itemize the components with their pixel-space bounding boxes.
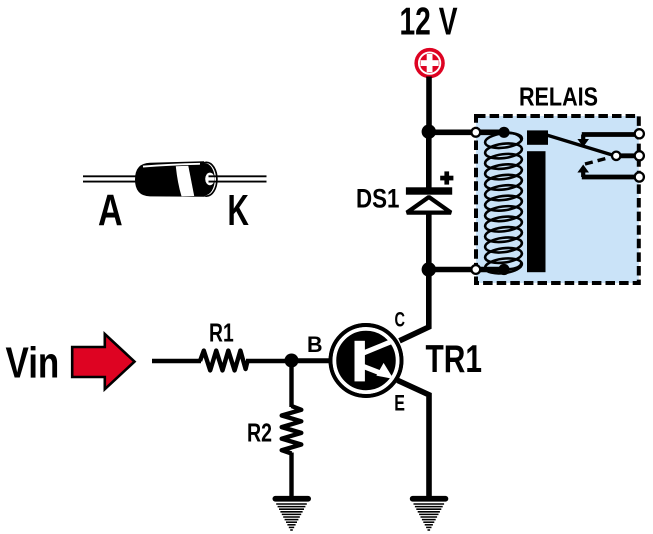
wire R1 to base — [246, 359, 336, 363]
physical diode drawing — [83, 161, 267, 197]
emitter arrow — [376, 363, 393, 379]
wire supply to node1 — [426, 77, 432, 135]
svg-text:Vin: Vin — [6, 339, 60, 388]
collector stroke inside — [361, 341, 394, 355]
transistor TR1 — [292, 323, 404, 398]
svg-text:TR1: TR1 — [426, 338, 483, 381]
DS1 plus polarity mark — [440, 171, 453, 184]
relay K1 box — [476, 116, 639, 283]
emitter stroke inside — [361, 366, 379, 373]
wire base — [292, 358, 341, 362]
wire node1 to DS1 — [426, 131, 432, 189]
relay armature block — [527, 130, 548, 144]
body circle — [329, 323, 404, 398]
wire input to R1 — [152, 359, 201, 363]
cathode lead double line — [209, 175, 267, 177]
wire emitter to ground — [398, 380, 430, 498]
relay common wire — [616, 153, 639, 158]
anode lead double line — [83, 175, 140, 177]
svg-text:C: C — [395, 306, 406, 331]
outer ring — [331, 325, 402, 396]
relay contact NO bottom — [577, 165, 639, 178]
relay arm alternate position dashed — [585, 157, 610, 164]
diode body — [135, 161, 204, 197]
svg-text:E: E — [394, 390, 405, 415]
svg-text:K: K — [228, 187, 250, 235]
diode DS1 — [406, 187, 452, 212]
supply +12V terminal — [414, 48, 444, 78]
cathode band — [176, 166, 194, 197]
wire DS1 to node2 — [426, 212, 432, 270]
svg-text:DS1: DS1 — [356, 184, 400, 214]
relay contact NC top — [577, 135, 639, 148]
svg-text:R1: R1 — [209, 318, 234, 348]
relay armature arm — [548, 135, 614, 155]
wire node to R2 — [289, 361, 293, 408]
relay terminal right bottom — [635, 172, 644, 181]
ground 2 — [410, 496, 449, 530]
wire node2 to collector — [400, 270, 429, 341]
wire node2 to relay coil bottom — [429, 267, 504, 273]
wire R2 to ground — [289, 453, 293, 499]
node junction dot bottom — [422, 262, 436, 276]
input arrow — [72, 334, 134, 389]
ground 1 — [273, 496, 312, 530]
svg-text:RELAIS: RELAIS — [519, 82, 598, 112]
relay terminal left top — [471, 128, 480, 137]
relay pivot contact — [612, 152, 620, 160]
node junction dot top — [422, 125, 436, 139]
end cap — [196, 162, 217, 196]
resistor R2 — [282, 406, 302, 454]
svg-text:12 V: 12 V — [400, 1, 458, 44]
relay coil terminal dot bottom — [498, 264, 509, 275]
svg-text:A: A — [98, 187, 123, 236]
relay terminal right middle — [635, 151, 644, 160]
base bar — [355, 341, 365, 382]
relay terminal right top — [635, 129, 644, 138]
relay coil L — [484, 131, 522, 275]
relay terminal left bottom — [471, 265, 480, 274]
relay core bar — [527, 151, 546, 272]
svg-text:R2: R2 — [247, 418, 272, 448]
body top highlight — [143, 164, 200, 167]
node base junction dot — [285, 354, 299, 368]
resistor R1 — [200, 351, 248, 371]
wire node1 to relay coil top — [429, 130, 504, 136]
svg-text:B: B — [307, 332, 323, 357]
relay coil terminal dot top — [498, 127, 509, 138]
